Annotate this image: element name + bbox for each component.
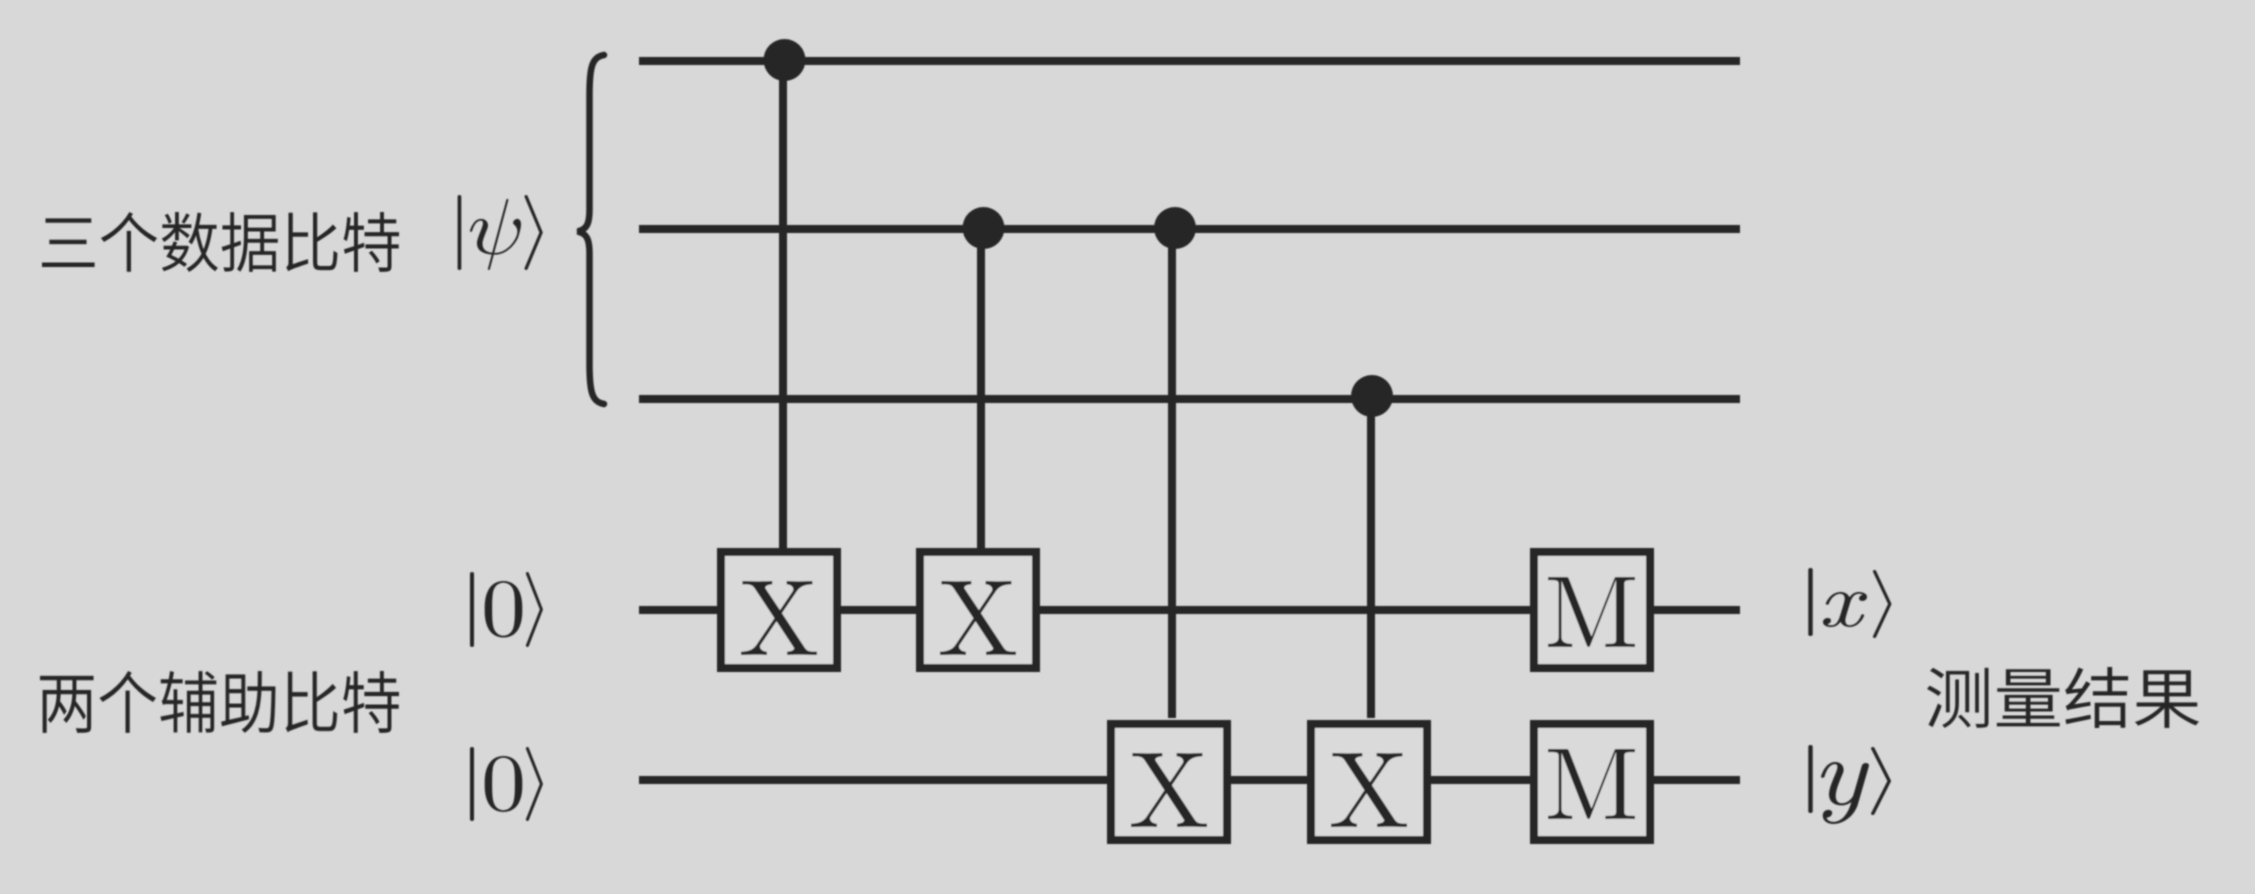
- wire: CNOT-1 vertical (q1 to ancilla1): [779, 61, 787, 548]
- measurement gate M (ancilla 2): [1534, 724, 1650, 840]
- measurement gate M (ancilla 1): [1534, 552, 1650, 668]
- wire: CNOT-3 vertical (q2 to ancilla2): [1168, 229, 1176, 718]
- node |x> output label: [1808, 568, 1891, 638]
- node |0> ancilla 2 input label: [470, 747, 543, 821]
- X gate 3 (ancilla 2): [1111, 724, 1227, 840]
- node |psi> input label: [458, 195, 543, 270]
- wire: data qubit 2: [639, 225, 1740, 233]
- wire: ancilla qubit 2: [639, 776, 1740, 784]
- node |0> ancilla 1 input label: [470, 572, 543, 647]
- node |y> output label: [1808, 745, 1891, 824]
- wire: data qubit 3: [639, 395, 1740, 403]
- X gate 4 (ancilla 2): [1311, 724, 1427, 840]
- control dot on data qubit 3: [1351, 375, 1393, 417]
- X gate 2 (ancilla 1): [920, 552, 1036, 668]
- brace grouping three data qubit wires: [578, 55, 605, 404]
- control dot on data qubit 1: [764, 39, 806, 81]
- control dot 1 on data qubit 2: [963, 207, 1005, 249]
- wire: data qubit 1: [639, 57, 1740, 65]
- X gate 1 (ancilla 1): [721, 552, 837, 668]
- control dot 2 on data qubit 2: [1154, 207, 1196, 249]
- label: measurement results (测量结果): [1927, 667, 2199, 728]
- wire: CNOT-4 vertical (q3 to ancilla2): [1367, 399, 1375, 718]
- label: three data qubits (三个数据比特): [42, 212, 399, 272]
- wire: CNOT-2 vertical (q2 to ancilla1): [977, 229, 985, 548]
- label: two ancilla qubits (两个辅助比特): [40, 671, 399, 733]
- wire: ancilla qubit 1: [639, 606, 1740, 614]
